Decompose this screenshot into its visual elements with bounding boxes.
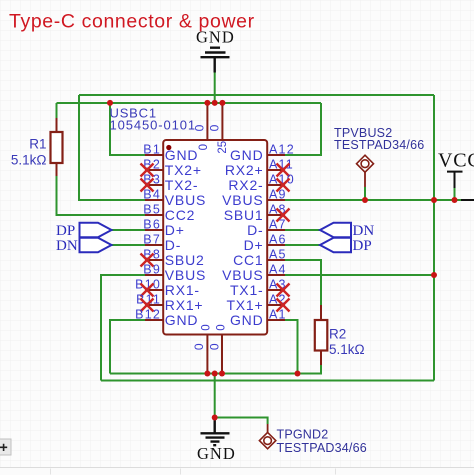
svg-text:SBU1: SBU1 — [224, 207, 264, 223]
svg-text:GND: GND — [196, 27, 235, 46]
wire A6 to DP port — [285, 244, 320, 246]
wire VBUS top horizontal y=95 — [79, 94, 434, 96]
no-connect X A8 — [277, 209, 290, 222]
svg-text:CC1: CC1 — [233, 252, 263, 268]
pin A8 (SBU1) — [224, 203, 287, 224]
no-connect X B11 — [141, 299, 154, 312]
pin A11 (RX2+) — [225, 158, 294, 179]
svg-text:0: 0 — [193, 124, 207, 131]
svg-text:R2: R2 — [329, 327, 346, 342]
pin B2 (TX2+) — [143, 158, 202, 179]
svg-text:B6: B6 — [143, 218, 161, 232]
pin A10 (RX2-) — [228, 173, 294, 194]
junction GND y103 stem — [212, 100, 218, 106]
wire to TPGND2 — [215, 418, 268, 425]
pin 25 top shell stub — [221, 103, 223, 140]
svg-text:TPGND2: TPGND2 — [277, 428, 329, 442]
wire VCC stem green — [454, 188, 456, 200]
pin B6 (D+) — [143, 218, 184, 239]
svg-text:TX2+: TX2+ — [165, 162, 202, 178]
svg-text:GND: GND — [230, 147, 264, 163]
svg-text:D+: D+ — [244, 237, 264, 253]
wire A1 GND — [285, 320, 298, 374]
wire TPVBUS2 stem — [364, 187, 366, 200]
pin B8 (SBU2) — [143, 248, 204, 269]
wire DP port to B6 — [112, 229, 146, 231]
pin B3 (TX2-) — [143, 173, 198, 194]
svg-text:D+: D+ — [165, 222, 185, 238]
svg-text:5.1kΩ: 5.1kΩ — [329, 342, 365, 357]
svg-text:VBUS: VBUS — [165, 192, 206, 208]
pin A9 (VBUS) — [222, 188, 287, 209]
pin B7 (D-) — [143, 233, 181, 254]
net port DN left — [80, 238, 112, 252]
wire VBUS bottom horizontal y=380.5 — [101, 380, 434, 382]
pin B4 (VBUS) — [143, 188, 206, 209]
power symbol VCC — [447, 172, 463, 188]
junction VBUS/VCC — [431, 197, 437, 203]
wire GND horizontal y=373.5 — [110, 373, 298, 375]
svg-text:B7: B7 — [143, 233, 161, 247]
svg-text:SBU2: SBU2 — [165, 252, 205, 268]
pin 0 bottom shell stub (left) — [206, 335, 208, 374]
svg-text:DP: DP — [56, 223, 75, 239]
no-connect X A2 — [277, 299, 290, 312]
testpad TPVBUS2 — [357, 155, 374, 187]
pin A6 (D+) — [244, 233, 287, 254]
svg-text:0: 0 — [208, 124, 222, 131]
svg-text:0: 0 — [192, 343, 206, 350]
pin 0 top shell stub — [206, 103, 208, 140]
wire A7 to DN port — [285, 229, 320, 231]
wire VBUS left vertical to B4 — [79, 95, 145, 200]
wire B12 GND — [110, 320, 145, 374]
svg-text:DN: DN — [56, 238, 78, 254]
svg-text:25: 25 — [217, 141, 229, 154]
pin-1 marker dot — [166, 145, 171, 150]
pin A3 (TX1-) — [230, 278, 287, 299]
junction GND y103 pin25 — [219, 100, 225, 106]
pin B1 (GND) — [143, 143, 198, 164]
pin B9 (VBUS) — [143, 263, 206, 284]
svg-text:RX2+: RX2+ — [225, 162, 264, 178]
wire CC2 R1 bottom to B5 — [57, 176, 146, 215]
junction GND y103 left — [107, 100, 113, 106]
wire DN port to B7 — [112, 244, 146, 246]
no-connect X A10 — [277, 179, 290, 192]
svg-text:RX2-: RX2- — [228, 177, 263, 193]
svg-text:0: 0 — [200, 324, 212, 330]
wire stub off-sheet right — [461, 199, 474, 201]
svg-text:TX1+: TX1+ — [226, 297, 263, 313]
svg-text:CC2: CC2 — [165, 207, 195, 223]
wire A5 CC1 to R2 — [285, 260, 321, 305]
pin B10 (RX1-) — [135, 278, 200, 299]
wire R2 bottom to GND — [298, 365, 322, 374]
power symbol GND top — [201, 48, 230, 73]
resistor R1 — [51, 118, 63, 176]
net port DN right — [320, 223, 351, 237]
wire R1 top to GND line — [56, 103, 58, 118]
svg-text:0: 0 — [207, 343, 221, 350]
pin B11 (RX1+) — [136, 293, 203, 314]
junction GND A1/R2 — [295, 371, 301, 377]
svg-text:B12: B12 — [135, 308, 161, 322]
no-connect X B2 — [141, 164, 154, 177]
wire GND corner to A12 — [285, 103, 321, 155]
resistor R2 — [315, 305, 328, 365]
pin A12 (GND) — [230, 143, 295, 164]
pin A7 (D-) — [247, 218, 287, 239]
svg-text:D-: D- — [165, 237, 181, 253]
svg-text:0: 0 — [215, 324, 227, 330]
svg-text:B1: B1 — [143, 143, 161, 157]
wire A9 VBUS to VCC row — [285, 199, 461, 201]
junction VBUS A4 — [431, 272, 437, 278]
svg-text:B4: B4 — [143, 188, 161, 202]
wire GND stem bottom — [214, 374, 216, 418]
svg-text:TESTPAD34/66: TESTPAD34/66 — [334, 138, 424, 152]
svg-text:TESTPAD34/66: TESTPAD34/66 — [277, 441, 367, 455]
junction GND TPGND2 — [212, 415, 218, 421]
svg-text:TX2-: TX2- — [165, 177, 199, 193]
pin 0 bottom shell stub (right) — [221, 335, 223, 374]
wire VBUS right vertical — [433, 95, 435, 381]
wire B9 VBUS left vertical — [101, 275, 145, 381]
svg-text:A6: A6 — [269, 233, 287, 247]
no-connect X B10 — [141, 284, 154, 297]
pin A5 (CC1) — [233, 248, 287, 269]
svg-text:VBUS: VBUS — [165, 267, 206, 283]
svg-text:D-: D- — [247, 222, 263, 238]
svg-text:R1: R1 — [29, 137, 46, 152]
svg-text:GND: GND — [165, 147, 199, 163]
pin A4 (VBUS) — [222, 263, 287, 284]
wire GND stem top — [214, 73, 216, 104]
svg-text:A5: A5 — [269, 248, 287, 262]
no-connect X B3 — [141, 179, 154, 192]
scrollbar strip — [0, 468, 474, 475]
wire B1 GND — [110, 103, 145, 155]
svg-text:VBUS: VBUS — [222, 267, 263, 283]
junction TPVBUS2 — [362, 197, 368, 203]
svg-text:GND: GND — [197, 444, 236, 463]
svg-text:VBUS: VBUS — [222, 192, 263, 208]
junction VCC stem — [452, 197, 458, 203]
svg-text:0: 0 — [198, 144, 210, 150]
testpad TPGND2 — [259, 424, 275, 449]
net port DP right — [320, 238, 351, 252]
svg-text:A9: A9 — [269, 188, 287, 202]
junction GND y373 stem — [212, 371, 218, 377]
svg-text:RX1-: RX1- — [165, 282, 200, 298]
junction GND y373 pin0L — [204, 371, 210, 377]
svg-text:DN: DN — [353, 223, 375, 239]
pin B5 (CC2) — [143, 203, 195, 224]
no-connect X A11 — [277, 164, 290, 177]
svg-text:A1: A1 — [269, 308, 287, 322]
wire A4 VBUS — [285, 274, 434, 276]
no-connect X A3 — [277, 284, 290, 297]
pin B12 (GND) — [135, 308, 198, 329]
pin A2 (TX1+) — [226, 293, 286, 314]
svg-text:105450-0101: 105450-0101 — [110, 118, 197, 133]
svg-text:RX1+: RX1+ — [165, 297, 204, 313]
svg-text:B9: B9 — [143, 263, 161, 277]
wire GND horizontal y=103 — [57, 102, 322, 104]
svg-text:GND: GND — [165, 312, 199, 328]
svg-text:VCC: VCC — [438, 150, 474, 172]
power symbol GND bottom — [201, 418, 230, 446]
svg-text:A7: A7 — [269, 218, 287, 232]
svg-text:A12: A12 — [269, 143, 295, 157]
svg-text:5.1kΩ: 5.1kΩ — [11, 153, 47, 168]
net port DP left — [80, 223, 112, 237]
svg-text:DP: DP — [353, 238, 372, 254]
connector USBC1 body — [163, 140, 267, 335]
no-connect X B8 — [141, 254, 154, 267]
junction GND y373 pin0R — [219, 371, 225, 377]
junction GND y103 pin0 — [204, 100, 210, 106]
svg-text:A4: A4 — [269, 263, 287, 277]
svg-text:GND: GND — [230, 312, 264, 328]
svg-text:B5: B5 — [143, 203, 161, 217]
svg-text:TX1-: TX1- — [230, 282, 264, 298]
zoom button + — [0, 439, 11, 455]
pin A1 (GND) — [230, 308, 287, 329]
